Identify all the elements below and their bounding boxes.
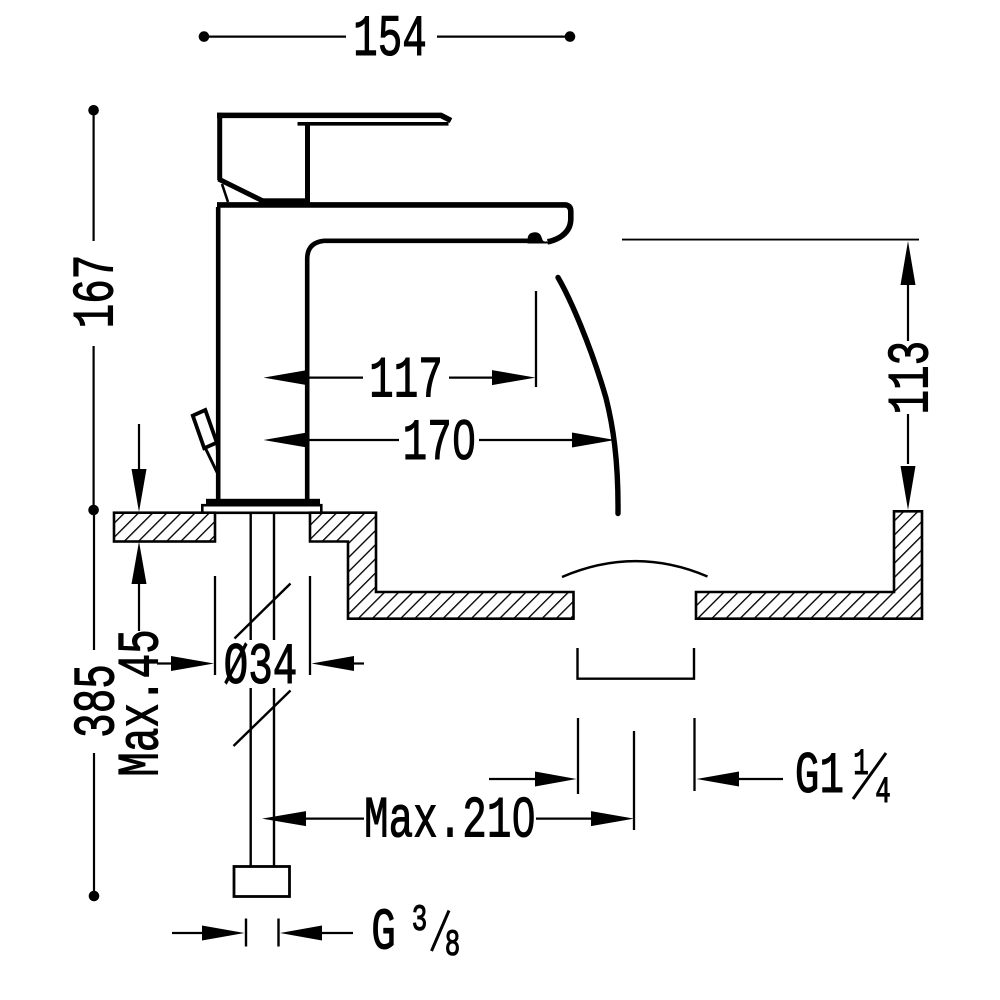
dim 117 extension line [535,291,537,387]
svg-text:Max.45: Max.45 [110,629,176,776]
faucet handle bottom diagonal [219,179,264,201]
dim 167 line [92,115,94,505]
dim G 3/8 left arrow [172,932,207,934]
dim 113 reference line [622,239,919,241]
shank break slash upper [235,584,291,639]
dim Max.210 left arrow [262,811,306,826]
svg-text:117: 117 [369,349,443,415]
faucet handle underside [298,122,449,126]
pop-up dome [562,561,708,577]
dim 113 lower arrow [907,414,909,464]
faucet handle stem [305,122,310,201]
dim Max.45 upper arrow [138,424,140,470]
dim 154 line [209,35,565,37]
faucet handle left edge [217,113,222,180]
dim Max.210 right arrow [536,817,594,819]
svg-text:113: 113 [880,341,946,415]
dim Ø34 right arrow [312,656,355,671]
svg-text:Ø34: Ø34 [224,635,298,701]
shank break slash lower [234,691,291,747]
dim Ø34 extension lines [214,576,216,675]
spout underside and body right edge [307,241,536,499]
dim 167 end dots [88,105,99,116]
svg-text:8: 8 [445,924,461,967]
svg-text:Max.210: Max.210 [364,789,536,855]
dim 117 right arrow [449,377,494,379]
body left edge [216,207,221,499]
faucet handle thin slant line [222,184,228,202]
faucet handle base black band [259,198,310,203]
svg-text:154: 154 [353,8,427,74]
drain centre extension line [633,731,635,830]
drain cup [578,648,695,679]
base plate [202,505,321,513]
countertop left block [114,513,215,542]
dim 385 line [93,515,95,891]
dim G1 1/4 right arrow [697,772,740,787]
svg-text:G: G [371,901,396,967]
lever grip (alternate position) [193,410,217,448]
dim 113 upper arrow [901,241,916,285]
svg-text:167: 167 [65,255,131,329]
dim Ø34 label halo [220,640,302,688]
svg-text:4: 4 [875,771,891,814]
countertop right deck, basin wall and left floor [310,513,574,619]
spout aerator nub [528,232,549,243]
dim Ø34 left arrow [157,662,174,664]
faucet handle top edge [217,115,451,120]
dim 154 end dots [199,31,210,42]
water stream [558,278,618,514]
dim Max.45 lower arrow [138,584,140,631]
svg-text:G1: G1 [795,744,844,810]
dim G 3/8 ticks [245,919,247,947]
svg-text:3: 3 [412,899,428,942]
shank tube [249,513,251,866]
lever stem lines [206,449,218,473]
dim 170 right arrow [479,439,574,441]
basin right floor and right wall [696,511,922,618]
dim 117 left arrow [264,370,308,385]
dim G1 1/4 extension lines [577,718,579,794]
spout top edge, right edge and tip chamfer [217,205,571,242]
dim 385 end dot [89,891,100,902]
base black bar [206,499,320,506]
dim 170 left arrow [264,433,308,448]
dim G 3/8 right arrow [280,926,322,941]
dim G1 1/4 left arrow [489,778,538,780]
supply nut [234,867,290,897]
